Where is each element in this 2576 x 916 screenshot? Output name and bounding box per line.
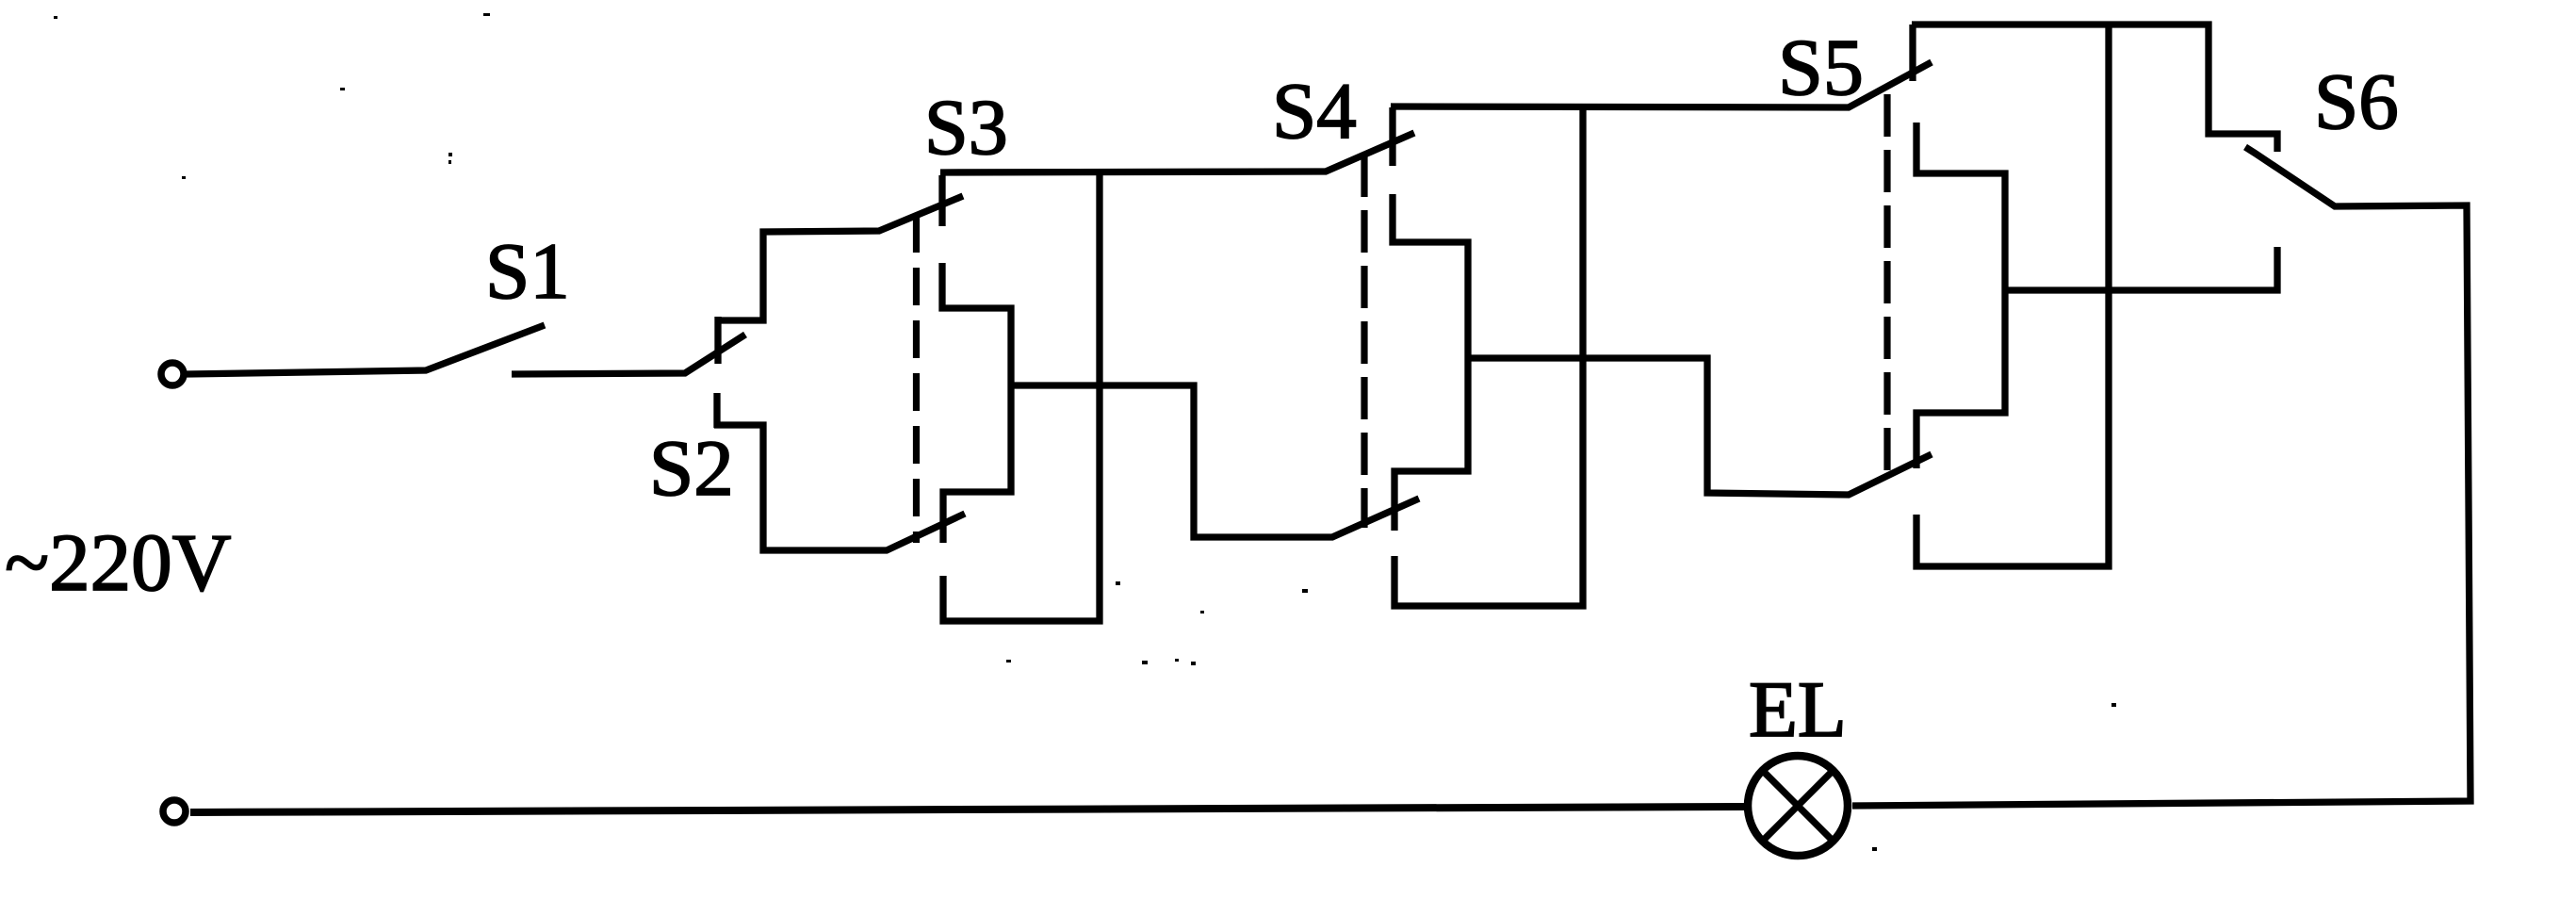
svg-text:S1: S1 bbox=[485, 227, 570, 316]
svg-text:~220V: ~220V bbox=[5, 516, 231, 608]
svg-text:S2: S2 bbox=[649, 424, 734, 513]
svg-text:S6: S6 bbox=[2314, 57, 2399, 146]
svg-text:S4: S4 bbox=[1272, 67, 1357, 155]
svg-text:S3: S3 bbox=[924, 84, 1008, 172]
svg-text:S5: S5 bbox=[1778, 22, 1864, 112]
svg-text:EL: EL bbox=[1749, 665, 1847, 754]
